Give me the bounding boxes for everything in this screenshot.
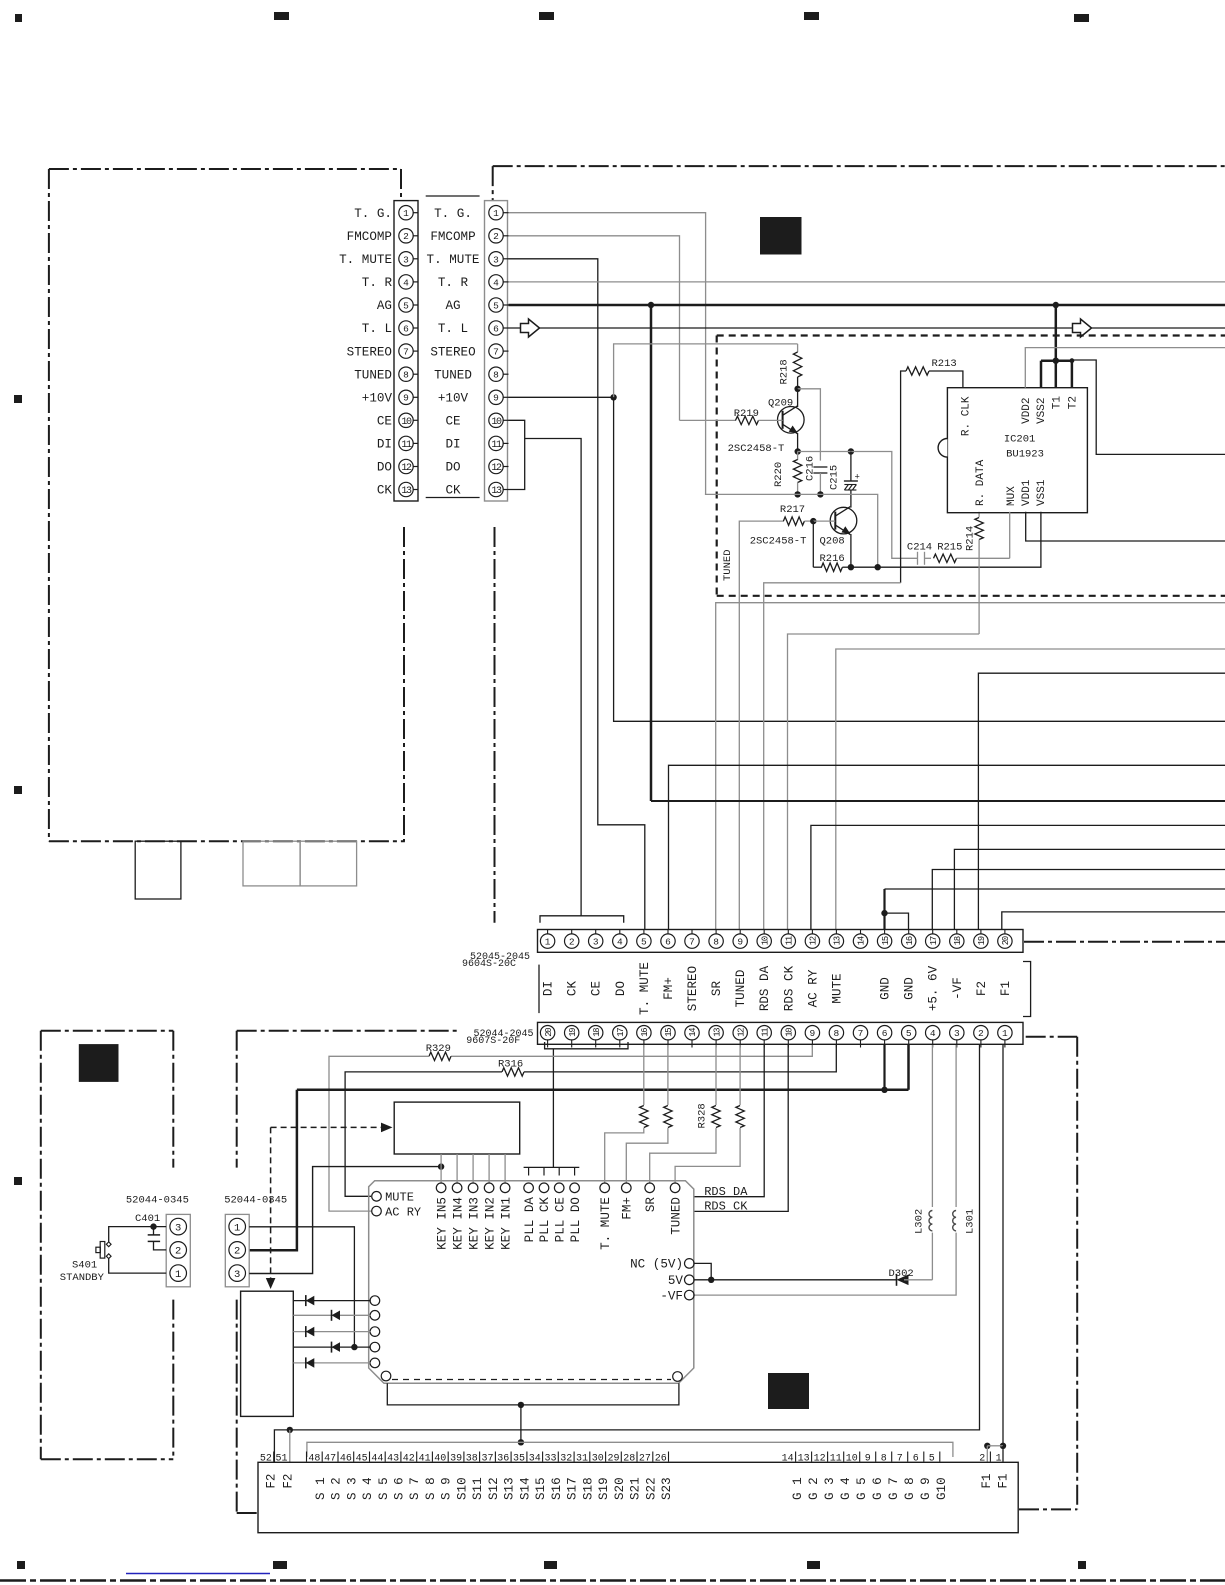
svg-text:S14: S14 (518, 1477, 532, 1500)
svg-text:13: 13 (833, 936, 843, 945)
svg-text:STEREO: STEREO (347, 345, 392, 359)
wire F1 pin20 (1002, 912, 1225, 930)
svg-text:4: 4 (617, 937, 623, 948)
svg-text:6: 6 (665, 937, 671, 948)
svg-text:STANDBY: STANDBY (60, 1272, 105, 1284)
connector bottom 52-pin (258, 1462, 1018, 1532)
svg-text:11: 11 (491, 440, 502, 451)
svg-text:45: 45 (356, 1454, 368, 1465)
wire F2 pin19 (978, 673, 1225, 929)
svg-text:11: 11 (401, 440, 412, 451)
svg-text:SR: SR (710, 981, 724, 997)
svg-text:KEY IN1: KEY IN1 (499, 1197, 513, 1250)
svg-text:VSS2: VSS2 (1036, 398, 1048, 424)
svg-text:9604S-20C: 9604S-20C (462, 959, 516, 970)
svg-text:F1: F1 (980, 1474, 994, 1489)
svg-text:MUTE: MUTE (830, 973, 844, 1003)
MCU inner dashed bottom (392, 1379, 671, 1381)
svg-text:AC RY: AC RY (806, 969, 820, 1007)
svg-text:VDD1: VDD1 (1021, 479, 1033, 506)
svg-text:BU1923: BU1923 (1006, 449, 1044, 461)
svg-text:T1: T1 (1052, 396, 1064, 410)
svg-text:9: 9 (737, 937, 743, 948)
svg-text:G 6: G 6 (871, 1477, 885, 1500)
svg-text:28: 28 (623, 1454, 635, 1465)
svg-text:S 9: S 9 (440, 1477, 454, 1500)
svg-text:G 7: G 7 (887, 1477, 901, 1500)
svg-text:L301: L301 (965, 1209, 977, 1234)
MCU left side pins for diodes (370, 1296, 380, 1306)
svg-text:T. MUTE: T. MUTE (339, 253, 392, 267)
middle label column (426, 195, 480, 197)
svg-text:S17: S17 (566, 1477, 580, 1500)
svg-text:5V: 5V (668, 1274, 684, 1288)
wire GND pins15-16 (885, 888, 1225, 890)
svg-text:S19: S19 (597, 1477, 611, 1500)
svg-text:27: 27 (639, 1454, 651, 1465)
wire AG drop to T1 (650, 305, 653, 801)
svg-text:14: 14 (857, 936, 867, 945)
svg-text:11: 11 (785, 936, 795, 945)
svg-text:-VF: -VF (660, 1289, 683, 1303)
svg-text:3: 3 (593, 937, 599, 948)
MUX wire (1009, 512, 1011, 559)
svg-text:S10: S10 (456, 1477, 470, 1500)
svg-text:16: 16 (640, 1028, 650, 1037)
svg-text:GND: GND (903, 977, 917, 1000)
svg-text:T. MUTE: T. MUTE (427, 253, 480, 267)
diode row 2 (293, 1314, 370, 1316)
svg-text:RDS CK: RDS CK (704, 1200, 748, 1214)
dashed box TUNED (717, 334, 1225, 336)
diode row 4 (293, 1346, 370, 1348)
svg-text:F2: F2 (282, 1474, 296, 1489)
svg-text:STEREO: STEREO (686, 966, 700, 1011)
RDS DA riser from R213 (764, 583, 901, 930)
svg-text:52044-0345: 52044-0345 (224, 1195, 287, 1207)
dashed pointer to display (271, 1126, 381, 1128)
wire T.R pin4 (509, 281, 1225, 283)
svg-text:R. CLK: R. CLK (961, 396, 973, 436)
svg-text:VDD2: VDD2 (1021, 398, 1033, 424)
svg-text:12: 12 (809, 936, 819, 945)
PLL bracket at MCU (524, 1166, 580, 1168)
svg-text:G10: G10 (935, 1477, 949, 1500)
svg-text:TUNED: TUNED (354, 368, 392, 382)
svg-text:S18: S18 (581, 1477, 595, 1500)
resistor R328 wire pin13 to SR (715, 1045, 717, 1105)
svg-text:SR: SR (644, 1197, 658, 1213)
Q209 emitter rail (797, 433, 799, 452)
svg-text:F1: F1 (999, 981, 1013, 996)
svg-text:12: 12 (814, 1454, 826, 1465)
svg-text:18: 18 (953, 936, 963, 945)
svg-text:5: 5 (906, 1028, 912, 1039)
svg-text:T. L: T. L (362, 322, 392, 336)
svg-text:2: 2 (175, 1246, 181, 1258)
svg-text:T. G.: T. G. (434, 207, 472, 221)
svg-text:D302: D302 (889, 1268, 914, 1280)
bottom bus rail (307, 1442, 953, 1457)
svg-text:GND: GND (879, 977, 893, 1000)
svg-text:26: 26 (655, 1454, 667, 1465)
svg-text:41: 41 (419, 1454, 431, 1465)
svg-text:AG: AG (377, 299, 392, 313)
svg-text:14: 14 (688, 1028, 698, 1037)
left standby dash-dot region border (41, 1030, 174, 1032)
svg-text:C216: C216 (805, 456, 817, 481)
svg-text:KEY IN3: KEY IN3 (467, 1197, 481, 1250)
resistor R329 net pin9 to AC RY (451, 1045, 812, 1056)
svg-text:AC RY: AC RY (385, 1206, 421, 1220)
bracket pins20-17 PLL bus (545, 1042, 628, 1049)
svg-text:R. DATA: R. DATA (975, 459, 987, 506)
svg-text:10: 10 (401, 417, 412, 428)
svg-text:9: 9 (810, 1028, 816, 1039)
svg-text:20: 20 (544, 1028, 554, 1037)
svg-text:43: 43 (387, 1454, 399, 1465)
svg-text:39: 39 (450, 1454, 462, 1465)
wire pin10 RDS CK (694, 1045, 788, 1211)
svg-text:CK: CK (445, 484, 461, 498)
svg-text:30: 30 (592, 1454, 604, 1465)
svg-text:52: 52 (260, 1454, 272, 1465)
svg-text:G 9: G 9 (919, 1477, 933, 1500)
svg-text:17: 17 (616, 1028, 626, 1037)
wire +5.6V (932, 870, 1225, 930)
svg-text:DI: DI (377, 438, 392, 452)
inductor L302 wire pin4 (931, 1045, 933, 1207)
connector 52044-2045 9607S-20F (538, 1022, 1024, 1044)
resistor R213 (901, 371, 906, 583)
svg-text:S 7: S 7 (408, 1477, 422, 1500)
svg-text:S22: S22 (644, 1477, 658, 1500)
svg-text:19: 19 (568, 1028, 578, 1037)
svg-text:RDS DA: RDS DA (704, 1185, 748, 1199)
wire T.G. pin1 (509, 213, 706, 495)
svg-text:5: 5 (403, 300, 409, 311)
svg-text:S 2: S 2 (330, 1477, 344, 1500)
IC top thick bar VSS2 T1 T2 (1041, 359, 1072, 362)
svg-text:DO: DO (445, 461, 460, 475)
svg-text:3: 3 (403, 254, 409, 265)
svg-text:S21: S21 (629, 1477, 643, 1500)
top-right dash-dot region border (493, 165, 1225, 167)
wire MUTE (836, 649, 1225, 930)
svg-text:DI: DI (542, 981, 556, 996)
svg-text:-VF: -VF (951, 977, 965, 1000)
svg-text:NC (5V): NC (5V) (630, 1258, 683, 1272)
svg-text:17: 17 (929, 936, 939, 945)
svg-text:FMCOMP: FMCOMP (347, 230, 392, 244)
svg-text:S 5: S 5 (377, 1477, 391, 1500)
svg-text:G 3: G 3 (823, 1477, 837, 1500)
connector CN left 13-pin (394, 201, 418, 501)
svg-text:10: 10 (846, 1454, 858, 1465)
wire T.L pin6 with arrows (509, 327, 1225, 329)
svg-text:4: 4 (403, 277, 409, 288)
svg-text:S12: S12 (487, 1477, 501, 1500)
svg-text:3: 3 (954, 1028, 960, 1039)
svg-text:CE: CE (445, 415, 460, 429)
IC top wires VDD2 (1025, 348, 1225, 388)
svg-text:6: 6 (882, 1028, 888, 1039)
DI bus bracket at 20p connector (540, 916, 624, 923)
svg-text:6: 6 (913, 1454, 919, 1465)
connector 52044-0345 left (166, 1214, 190, 1286)
svg-text:AG: AG (445, 299, 460, 313)
display to key stubs (440, 1154, 442, 1184)
svg-text:12: 12 (736, 1028, 746, 1037)
T.G. ground rail (705, 494, 878, 567)
svg-text:52044-0345: 52044-0345 (126, 1195, 189, 1207)
svg-text:DO: DO (377, 461, 392, 475)
wire 3pin pin1 to diode node (249, 1227, 354, 1347)
svg-text:42: 42 (403, 1454, 415, 1465)
wire +10V pin9 (509, 396, 614, 398)
wire -VF (954, 849, 1225, 929)
capacitor C401 (150, 1223, 156, 1229)
IC U1 IC201 BU1923 (947, 388, 1087, 513)
diode row 5 (293, 1362, 370, 1364)
resistor R217 (739, 521, 784, 930)
5V thick rail (907, 1045, 910, 1090)
svg-text:15: 15 (881, 936, 891, 945)
svg-text:R215: R215 (937, 542, 962, 554)
MCU bottom U wire (387, 1383, 679, 1405)
svg-text:+10V: +10V (438, 392, 469, 406)
resistor R316 net pin8 to MUTE (524, 1045, 836, 1072)
svg-text:10: 10 (491, 417, 502, 428)
label column bracket left (538, 965, 540, 1014)
svg-text:1: 1 (1002, 1028, 1008, 1039)
svg-text:1: 1 (545, 937, 551, 948)
svg-text:KEY IN5: KEY IN5 (435, 1197, 449, 1250)
connector 52044-0345 right (225, 1214, 249, 1286)
svg-text:VSS1: VSS1 (1036, 479, 1048, 506)
transistor Q208 (830, 507, 857, 534)
resistor R215 (934, 554, 957, 562)
svg-text:S15: S15 (534, 1477, 548, 1500)
svg-text:C215: C215 (829, 465, 841, 490)
svg-text:12: 12 (491, 463, 502, 474)
wire T.MUTE pin3 (509, 259, 645, 930)
svg-text:S 4: S 4 (361, 1477, 375, 1500)
left dash-dot region border (49, 168, 401, 170)
svg-text:1: 1 (234, 1222, 240, 1234)
svg-text:F2: F2 (975, 981, 989, 996)
svg-text:R217: R217 (780, 504, 805, 516)
svg-text:R316: R316 (498, 1059, 523, 1071)
resistor R219 (680, 419, 737, 421)
wire SR (716, 603, 1225, 930)
svg-text:R328: R328 (697, 1103, 709, 1128)
svg-text:STEREO: STEREO (430, 345, 475, 359)
svg-text:S20: S20 (613, 1477, 627, 1500)
wire pin2 F2 (274, 1045, 979, 1462)
svg-text:35: 35 (513, 1454, 525, 1465)
svg-text:18: 18 (592, 1028, 602, 1037)
svg-text:L302: L302 (914, 1209, 926, 1234)
svg-text:S 1: S 1 (314, 1477, 328, 1500)
svg-text:R220: R220 (773, 462, 785, 487)
T2 net to edge (1072, 360, 1225, 454)
display box (394, 1102, 520, 1154)
label column bracket right (1023, 962, 1031, 1017)
bracket pins10-13 DI bus (509, 420, 525, 489)
MCU box (369, 1181, 694, 1384)
svg-text:DI: DI (445, 438, 460, 452)
svg-text:S13: S13 (503, 1477, 517, 1500)
svg-text:47: 47 (324, 1454, 336, 1465)
svg-text:2: 2 (234, 1246, 240, 1258)
crop marks (15, 14, 22, 22)
svg-text:14: 14 (782, 1454, 794, 1465)
svg-text:4: 4 (930, 1028, 936, 1039)
NC(5V) tie (694, 1263, 711, 1279)
svg-text:G 1: G 1 (791, 1477, 805, 1500)
svg-text:R219: R219 (734, 408, 759, 420)
svg-text:19: 19 (977, 936, 987, 945)
MCU left pins MUTE ACRY (372, 1192, 382, 1202)
svg-text:1: 1 (403, 208, 409, 219)
svg-text:G 4: G 4 (839, 1477, 853, 1500)
svg-text:48: 48 (308, 1454, 320, 1465)
svg-text:13: 13 (401, 486, 412, 497)
svg-text:1: 1 (996, 1454, 1002, 1465)
wire FMCOMP pin2 (509, 236, 680, 421)
left region tabs (135, 841, 181, 899)
bottom-center dash-dot region border (237, 1030, 457, 1032)
svg-text:FMCOMP: FMCOMP (430, 230, 475, 244)
svg-text:C401: C401 (135, 1213, 160, 1225)
svg-text:FM+: FM+ (621, 1197, 635, 1220)
svg-text:PLL CE: PLL CE (553, 1197, 567, 1242)
node R218/Q209 to C216 (798, 389, 821, 461)
page bottom rule (0, 1579, 1225, 1581)
svg-text:CE: CE (377, 415, 392, 429)
svg-text:R218: R218 (779, 359, 791, 384)
svg-text:8: 8 (834, 1028, 840, 1039)
switch S401 STANDBY (109, 1227, 167, 1242)
wire AG to edge (651, 800, 1225, 802)
svg-text:32: 32 (560, 1454, 572, 1465)
svg-text:CE: CE (590, 981, 604, 996)
svg-text:15: 15 (664, 1028, 674, 1037)
svg-text:7: 7 (403, 347, 409, 358)
svg-text:5: 5 (493, 300, 499, 311)
svg-text:T. MUTE: T. MUTE (599, 1197, 613, 1250)
svg-text:S 8: S 8 (424, 1477, 438, 1500)
svg-text:8: 8 (713, 937, 719, 948)
capacitor C214 (917, 552, 919, 565)
svg-text:T2: T2 (1068, 396, 1080, 409)
VDD1 net to edge (1026, 512, 1225, 541)
Q208 emitter wire (850, 534, 852, 567)
svg-text:7: 7 (493, 347, 499, 358)
svg-text:2: 2 (403, 231, 409, 242)
wire FM+ (669, 765, 1225, 929)
svg-text:2: 2 (569, 937, 575, 948)
diode row 1 (293, 1300, 370, 1302)
MCU top pin circles (436, 1183, 446, 1193)
svg-text:Q209: Q209 (768, 398, 793, 410)
svg-text:S23: S23 (660, 1477, 674, 1500)
svg-text:9: 9 (493, 393, 499, 404)
svg-text:5: 5 (641, 937, 647, 948)
registration square left-bottom (79, 1044, 119, 1082)
svg-text:2: 2 (493, 231, 499, 242)
svg-text:CK: CK (566, 981, 580, 997)
svg-text:TUNED: TUNED (734, 970, 748, 1008)
resistor R216 (812, 521, 814, 567)
svg-text:T. R: T. R (362, 276, 393, 290)
svg-text:6: 6 (493, 324, 499, 335)
svg-text:16: 16 (905, 936, 915, 945)
svg-text:40: 40 (434, 1454, 446, 1465)
svg-text:G 2: G 2 (807, 1477, 821, 1500)
svg-text:8: 8 (493, 370, 499, 381)
svg-text:46: 46 (340, 1454, 352, 1465)
R216 rail to VSS1 (851, 512, 1041, 567)
svg-text:7: 7 (858, 1028, 864, 1039)
svg-text:F2: F2 (265, 1474, 279, 1489)
svg-text:8: 8 (881, 1454, 887, 1465)
svg-text:38: 38 (466, 1454, 478, 1465)
svg-text:RDS DA: RDS DA (758, 965, 772, 1011)
svg-text:9: 9 (403, 393, 409, 404)
svg-text:KEY IN2: KEY IN2 (483, 1197, 497, 1250)
svg-text:12: 12 (401, 463, 412, 474)
svg-text:2: 2 (978, 1028, 984, 1039)
svg-text:2: 2 (979, 1454, 985, 1465)
svg-text:10: 10 (760, 936, 770, 945)
svg-text:FM+: FM+ (662, 977, 676, 1000)
svg-text:R214: R214 (965, 526, 977, 551)
svg-text:S11: S11 (471, 1477, 485, 1500)
svg-text:TUNED: TUNED (722, 549, 734, 581)
wire pin16 to T.MUTE (643, 1045, 645, 1105)
svg-text:G 8: G 8 (903, 1477, 917, 1500)
svg-text:C214: C214 (907, 542, 932, 554)
wire pin15 to FM+ (667, 1045, 669, 1105)
svg-text:13: 13 (491, 486, 502, 497)
svg-text:TUNED: TUNED (434, 368, 472, 382)
svg-text:S16: S16 (550, 1477, 564, 1500)
svg-text:13: 13 (712, 1028, 722, 1037)
svg-text:4: 4 (493, 277, 499, 288)
svg-text:6: 6 (403, 324, 409, 335)
wire pin1 F1 (1002, 1045, 1004, 1446)
connector 52045-2045 9604S-20C (538, 930, 1024, 953)
svg-text:T. G.: T. G. (354, 207, 392, 221)
svg-text:T. L: T. L (438, 322, 468, 336)
wire pin12 to TUNED (739, 1045, 741, 1105)
svg-text:11: 11 (830, 1454, 842, 1465)
svg-text:2SC2458-T: 2SC2458-T (750, 536, 807, 548)
diode D302 5V line (694, 1279, 897, 1281)
svg-text:TUNED: TUNED (669, 1197, 683, 1235)
svg-text:31: 31 (576, 1454, 588, 1465)
svg-text:S 3: S 3 (345, 1477, 359, 1500)
svg-text:11: 11 (760, 1028, 770, 1037)
capacitor C216 (813, 466, 827, 468)
connector CN right 13-pin (485, 201, 508, 501)
wire pin11 RDS DA (694, 1045, 764, 1197)
svg-text:3: 3 (234, 1269, 240, 1281)
svg-text:1: 1 (175, 1269, 181, 1281)
svg-text:2SC2458-T: 2SC2458-T (728, 443, 785, 455)
